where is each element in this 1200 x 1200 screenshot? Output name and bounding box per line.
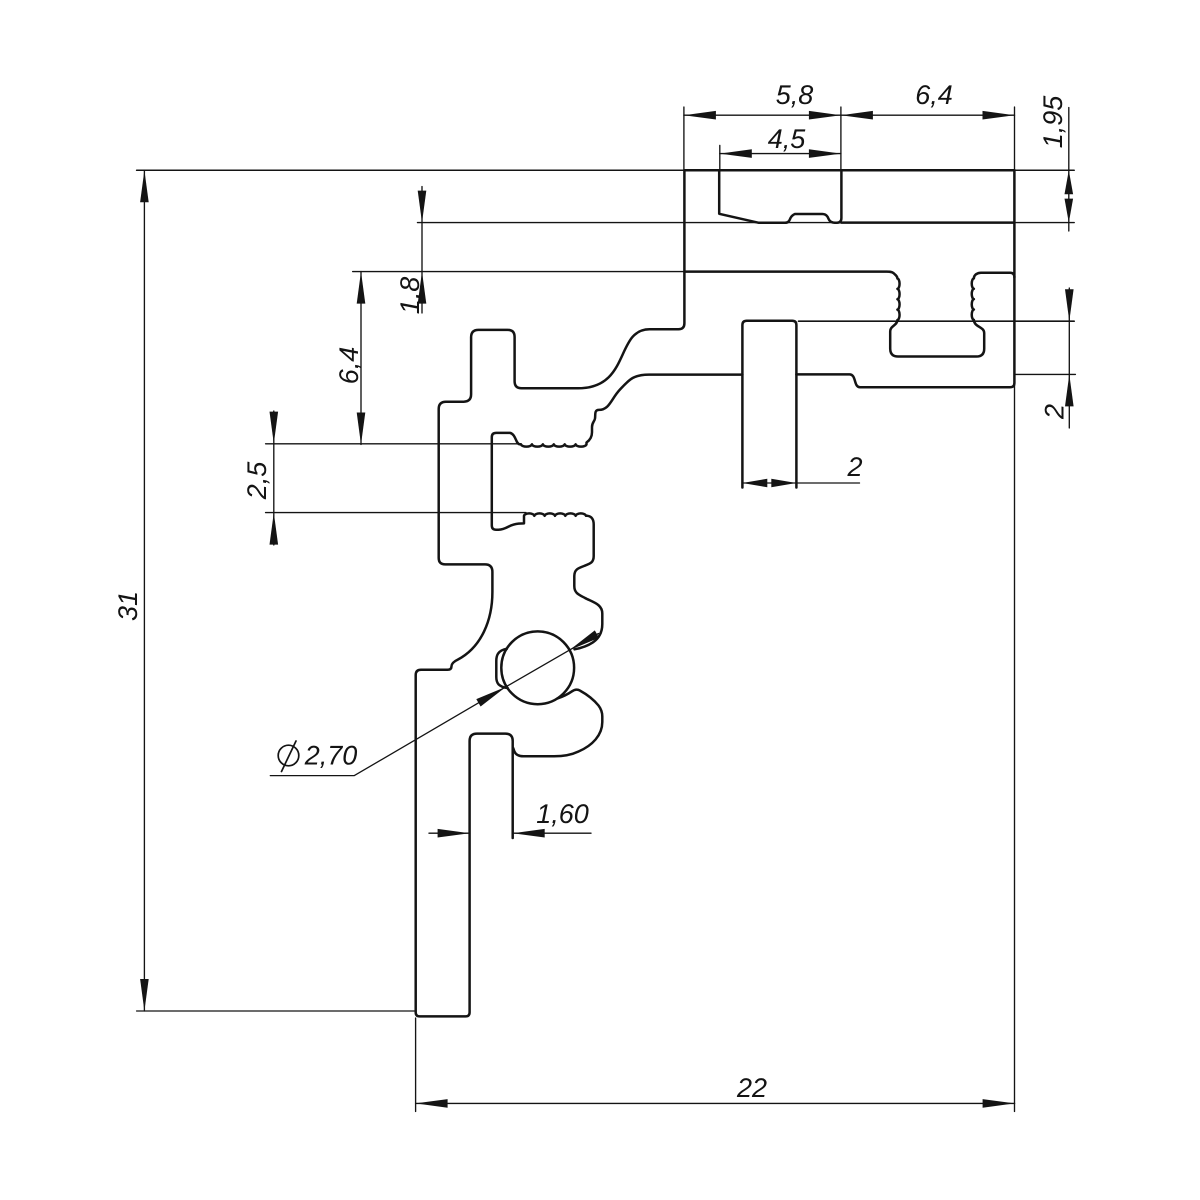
dim line 5,8 and 6,4 top — [684, 114, 1015, 116]
dim line 2 middle — [742, 482, 859, 484]
dim line 1,60 — [429, 832, 591, 834]
dim line 2 right vertical — [1068, 288, 1070, 428]
tab 2mm hanging rib — [742, 321, 796, 488]
ext vert right long — [1014, 383, 1016, 1112]
ext line y=1011 — [137, 1010, 416, 1012]
ext line y=512.6 — [266, 512, 526, 514]
dimension texts — [118, 85, 1065, 1097]
arrowheads — [140, 111, 1074, 1108]
extension top line full — [137, 169, 1075, 171]
ext vert 22 left — [415, 1018, 417, 1112]
leader dia 2,70 — [270, 634, 598, 776]
outer boundary left side — [416, 170, 685, 1016]
channel floor and screw-port cavity with serrations — [684, 272, 1014, 357]
ext line y=222.6 — [418, 222, 1075, 224]
diameter symbol — [278, 741, 299, 772]
ext vert right top — [1014, 107, 1016, 170]
circle dia 2,70 — [501, 631, 574, 704]
top pocket walls and floor — [719, 171, 841, 223]
dim line 6,4 left vertical — [360, 272, 362, 445]
jaw top line y=321 — [799, 320, 1075, 322]
ext right of 2 dim y=374.4 — [1014, 373, 1075, 375]
web underside, serrated pocket, centre block, stem and upper jaw — [492, 375, 743, 650]
dim line 22 — [416, 1102, 1015, 1104]
ext vert 4,5 left — [719, 145, 721, 171]
dim line 1,95 vertical — [1068, 108, 1070, 232]
dim line 1,8 vertical — [421, 187, 423, 314]
clamp lower lobe — [513, 690, 602, 757]
ext line y=271.6 — [353, 271, 685, 273]
ext vert 5,8 left — [683, 107, 685, 170]
profile top edge — [684, 169, 1014, 172]
dim line 31 vertical — [143, 170, 145, 1011]
dim line 2,5 vertical — [273, 411, 275, 545]
flange underside 1.95 — [841, 221, 1014, 224]
dim line 4,5 — [720, 153, 841, 155]
ext line y=443.8 — [266, 443, 519, 445]
clamp lip left of circle — [496, 649, 507, 688]
ext vert shared x=840.9 — [840, 107, 842, 170]
profile right edge and lower flange underside — [796, 170, 1014, 387]
